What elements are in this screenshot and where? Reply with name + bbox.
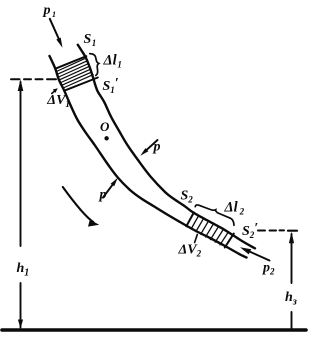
svg-text:p1: p1	[43, 3, 57, 19]
svg-text:S2: S2	[181, 189, 194, 205]
svg-text:ΔV2: ΔV2	[178, 243, 202, 259]
svg-text:S1: S1	[84, 32, 97, 48]
svg-text:Δl1: Δl1	[103, 53, 122, 70]
svg-text:O: O	[100, 119, 110, 134]
svg-text:p: p	[99, 188, 107, 203]
svg-text:S2′: S2′	[242, 221, 258, 240]
svg-text:h1: h1	[17, 261, 30, 279]
svg-text:p2: p2	[262, 261, 275, 277]
svg-text:p: p	[153, 140, 161, 155]
svg-text:hз: hз	[285, 290, 297, 308]
svg-text:S1′: S1′	[103, 76, 119, 95]
svg-text:Δl2: Δl2	[224, 200, 245, 217]
